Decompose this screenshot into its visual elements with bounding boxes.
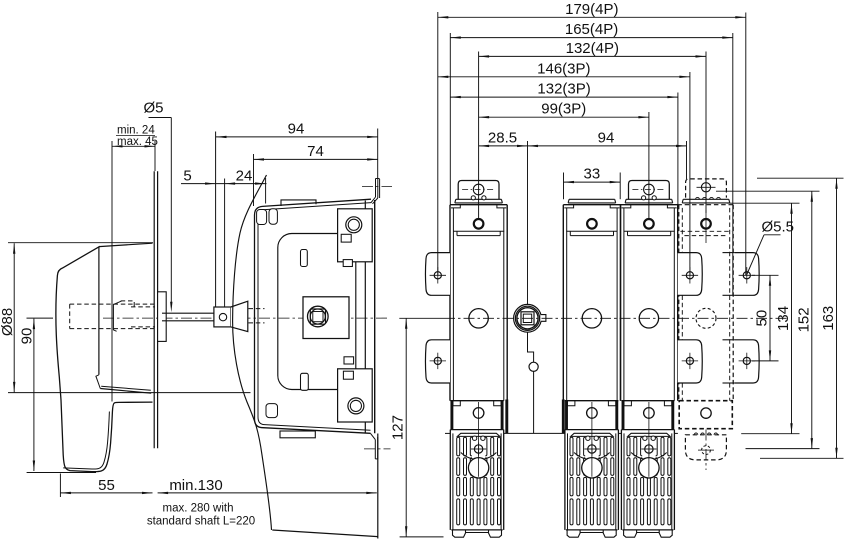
switch body outer silhouette <box>255 206 371 433</box>
svg-text:152: 152 <box>795 307 812 332</box>
extension line x=732.8 <box>732 33 734 295</box>
rail bottom hook centerline <box>364 448 391 450</box>
top terminal lower tab <box>343 260 352 267</box>
operating shaft inner ring <box>517 308 538 329</box>
extension line x=689.9 <box>689 72 691 275</box>
dimension 179(4P) <box>438 16 746 18</box>
bottom terminal screw outer <box>348 398 364 414</box>
extension line Ø88 bottom <box>8 392 251 394</box>
centerline main horizontal axis (left/side views) <box>103 317 389 319</box>
door plate front line <box>153 171 155 448</box>
upper right mounting ear 4P backplate <box>723 252 735 254</box>
switch body top edge outer <box>263 199 372 206</box>
operating shaft square outer <box>521 312 534 325</box>
svg-text:55: 55 <box>98 477 115 494</box>
extension line 152 top <box>716 190 820 192</box>
rail top hook centerline <box>362 186 392 188</box>
extension line x=527.5 to shaft <box>527 141 529 304</box>
extension line x=224.6 <box>224 179 226 308</box>
pole 1 center hub circle <box>469 309 488 328</box>
bottom terminal tab <box>343 371 353 379</box>
svg-text:146(3P): 146(3P) <box>537 60 590 77</box>
rail top hook <box>375 179 377 198</box>
switch body top edge inner <box>263 203 371 210</box>
operating shaft square inner <box>523 314 531 322</box>
bottom terminal upper tab <box>344 357 354 364</box>
door plate rear line <box>157 171 159 448</box>
bottom mounting tab <box>280 431 315 438</box>
pole 4 dashed terminal box <box>679 401 732 429</box>
svg-text:24: 24 <box>236 167 253 184</box>
bottom-left rounded lug <box>266 404 278 418</box>
dimension 94 (switch depth) <box>216 136 378 138</box>
mounting rail front line <box>364 201 366 434</box>
svg-text:max. 280 with: max. 280 with <box>163 503 234 515</box>
pole 3 fuse cover <box>621 429 674 431</box>
extension line at handle rear x=112 <box>111 141 113 402</box>
extension line x=686.5 <box>686 141 688 179</box>
svg-text:standard shaft L=220: standard shaft L=220 <box>147 516 255 528</box>
pole 4 serrated strip <box>683 198 729 200</box>
top terminal tab <box>341 234 351 242</box>
mechanism link rod lower <box>533 371 535 433</box>
lower face slot <box>301 373 309 390</box>
leader line for Ø5 <box>149 117 172 119</box>
switch face inner panel <box>278 234 356 390</box>
mechanism module walls <box>505 400 508 434</box>
dimension min.130 <box>158 492 377 494</box>
extension line 127 bottom <box>400 536 444 538</box>
pole 4 dashed cap <box>686 179 727 198</box>
upper face slot <box>301 250 308 267</box>
svg-text:90: 90 <box>19 328 36 345</box>
drive shaft outer ring <box>308 306 329 327</box>
top terminal screw outer <box>346 217 362 233</box>
svg-text:132(3P): 132(3P) <box>537 81 590 98</box>
top-left rounded lug B <box>269 209 277 224</box>
lower right mounting ear 4P backplate <box>723 339 735 341</box>
svg-text:min. 24: min. 24 <box>117 125 155 137</box>
extension line 90 bottom <box>27 472 96 474</box>
pole 1 cap base plate <box>456 198 502 200</box>
upper right mounting ear 4P <box>735 253 760 296</box>
handle knob outer profile <box>56 246 153 471</box>
lower right mounting ear 3P <box>678 340 703 383</box>
pole 3 center hub circle <box>639 309 658 328</box>
extension line at door front x=155 <box>154 141 156 171</box>
extension line x=478.6 <box>478 52 480 219</box>
operating shaft outer ring <box>514 304 542 332</box>
drive square hole outer <box>310 309 325 324</box>
dimension 94 pole spacing <box>528 145 687 147</box>
hidden shaft inside switch (dashed) <box>249 308 265 310</box>
handle knob bottom edge inner <box>101 386 151 390</box>
pole 3 cap base plate <box>626 198 672 200</box>
extension line x=706.0 <box>705 52 707 214</box>
dimension 152 <box>811 191 813 448</box>
dimension 90 vertical line <box>33 319 35 471</box>
extension tick 90 top <box>27 317 54 319</box>
bottom terminal screw inner <box>350 400 361 411</box>
extension line 134 bottom <box>741 433 799 435</box>
extension line 152 bottom <box>746 448 820 450</box>
operating shaft ring 2 <box>515 306 539 330</box>
lower left mounting ear <box>425 340 450 383</box>
dimension 99(3P) <box>479 116 649 118</box>
svg-text:28.5: 28.5 <box>488 129 517 146</box>
svg-text:132(4P): 132(4P) <box>566 40 619 57</box>
dimension line min24/max45 (door thickness) <box>112 145 155 147</box>
handle grip inner wall line <box>63 412 109 470</box>
pole 2 terminal box <box>565 400 619 402</box>
separator line between min/max labels <box>116 135 155 137</box>
upper right mounting ear 3P <box>678 253 703 296</box>
pole 3 cable clamp cap <box>629 181 670 200</box>
extension line 50 top <box>752 274 779 276</box>
svg-text:74: 74 <box>307 143 324 160</box>
dimension 28.5 <box>479 145 528 147</box>
extension line x=437.8 <box>437 12 439 275</box>
extension line 94 right x=377.7 <box>377 129 379 179</box>
pole 4 cap screw cross <box>701 183 710 192</box>
handle boss top edge <box>99 243 153 246</box>
dimension 74 <box>254 158 378 160</box>
pole 1 fuse cover <box>450 429 503 431</box>
pole 4 dashed band <box>680 230 731 232</box>
dimension 163 <box>836 178 838 458</box>
svg-text:5: 5 <box>183 168 191 185</box>
handle knob bottom edge outer <box>100 389 151 394</box>
extension line x=648.9 <box>648 112 650 219</box>
svg-text:Ø5.5: Ø5.5 <box>762 219 795 236</box>
pole 4 bottom cap serration <box>694 433 698 435</box>
svg-text:Ø88: Ø88 <box>0 308 16 336</box>
dimension 134 <box>791 203 793 434</box>
extension line 74 left x=253.5 <box>253 154 255 206</box>
dimension 127 <box>405 318 407 537</box>
pole 1 cover centerline <box>478 402 480 477</box>
dimension 55 <box>60 492 152 494</box>
extension line 134 top <box>727 202 800 204</box>
lower right mounting ear 4P <box>735 340 760 383</box>
centerline front view horizontal <box>399 317 444 319</box>
svg-text:134: 134 <box>775 306 792 331</box>
pole 2 top terminal circle <box>587 219 597 229</box>
top terminal block <box>338 209 373 262</box>
top mounting tab <box>281 200 316 206</box>
rail bottom hook <box>371 433 376 439</box>
extension line 50 bottom <box>752 360 779 362</box>
shaft coupling trapezoid at switch <box>231 301 248 331</box>
shaft clamp block <box>214 307 231 327</box>
svg-text:min.130: min.130 <box>169 477 222 494</box>
door swing envelope curve <box>233 175 272 530</box>
central drive block <box>303 297 349 339</box>
top terminal screw inner <box>348 219 359 230</box>
pole 1 top terminal circle <box>474 219 484 229</box>
pole 4 terminal circle <box>701 219 711 229</box>
extension line Ø88 top <box>8 242 153 244</box>
svg-text:163: 163 <box>820 306 837 331</box>
dimension 165(4P) <box>450 37 733 39</box>
svg-text:50: 50 <box>754 310 771 327</box>
extension line x=745.8 <box>745 13 747 276</box>
pole 4 vertical centerline upper <box>705 210 707 243</box>
extension line 163 bottom <box>760 457 844 459</box>
dimension Ø88 vertical line <box>13 243 15 392</box>
pole 1 cable clamp cap <box>458 181 499 200</box>
svg-text:127: 127 <box>390 415 407 440</box>
mounting rail rear line <box>374 200 376 433</box>
pole 2 center hub circle <box>582 309 601 328</box>
extension line 163 top <box>757 177 844 179</box>
pole 2 top plate <box>569 198 615 200</box>
svg-text:94: 94 <box>598 129 615 146</box>
switch body inner wall <box>258 210 371 430</box>
extension line x=265.6 (switch front) <box>265 178 267 204</box>
pole 4 dashed hub circle <box>696 308 716 328</box>
pole 4 bottom centerline <box>705 430 707 471</box>
operating shaft rod <box>162 312 231 314</box>
top-left rounded lug A <box>257 210 267 225</box>
pole 2 cover centerline <box>591 402 593 477</box>
shaft socket bracket (solid) <box>113 301 121 331</box>
dimension 132(3P) <box>450 96 678 98</box>
pole 4 bottom cap screw (dashed) <box>702 446 711 455</box>
pole 3 body <box>620 205 622 401</box>
dimension 132(4P) <box>479 55 706 57</box>
pole 3 cover centerline <box>648 402 650 477</box>
extension line x=215.6 (door rear) <box>215 132 217 308</box>
handle boss bottom notch <box>96 375 100 389</box>
mechanism link pivot <box>529 362 538 371</box>
extension line 33 left <box>563 173 565 200</box>
extension line x=677.9 <box>677 93 679 205</box>
handle boss left edge <box>98 247 100 375</box>
base plate bottom line <box>445 432 450 434</box>
lower cover bottom edge (side view) <box>272 530 378 537</box>
drive square hole inner <box>313 312 323 322</box>
svg-text:Ø5: Ø5 <box>144 100 164 117</box>
operating shaft side tab <box>541 315 546 322</box>
bottom terminal block <box>338 369 373 422</box>
mechanism link rod <box>528 332 534 362</box>
pole 2 body <box>562 205 564 401</box>
extension line 55 left <box>59 474 61 498</box>
svg-text:165(4P): 165(4P) <box>565 21 618 38</box>
dimension 146(3P) <box>438 76 690 78</box>
svg-text:33: 33 <box>584 166 601 183</box>
drive shaft inner ring <box>310 309 325 324</box>
pole 3 top terminal circle <box>644 219 654 229</box>
pole 3 terminal box <box>621 400 674 402</box>
hidden shaft socket step (dashed) <box>121 301 135 307</box>
svg-text:99(3P): 99(3P) <box>541 101 586 118</box>
pole 1 terminal box <box>450 400 503 402</box>
pole 2 fuse cover <box>565 429 619 431</box>
pole 1 body <box>449 205 451 401</box>
extension line x=450.3 <box>449 33 451 205</box>
upper left mounting ear <box>425 253 450 296</box>
pole 4 dashed body <box>677 204 734 206</box>
pole 4 dashed bottom cap <box>685 435 726 460</box>
shaft adapter plate behind door <box>158 292 167 342</box>
dimension 50 <box>769 275 771 361</box>
hidden shaft cavity in handle (dashed box) <box>70 303 155 305</box>
dimension 33 <box>564 181 621 183</box>
extension line 33 right <box>619 173 621 200</box>
lower cover right edge (side view) <box>377 434 379 539</box>
dimension 5 and 24 shared line <box>181 183 267 185</box>
svg-text:94: 94 <box>288 120 305 137</box>
pole 4 box circle <box>701 408 711 418</box>
shaft clamp screw <box>219 313 226 320</box>
svg-text:179(4P): 179(4P) <box>565 1 618 18</box>
